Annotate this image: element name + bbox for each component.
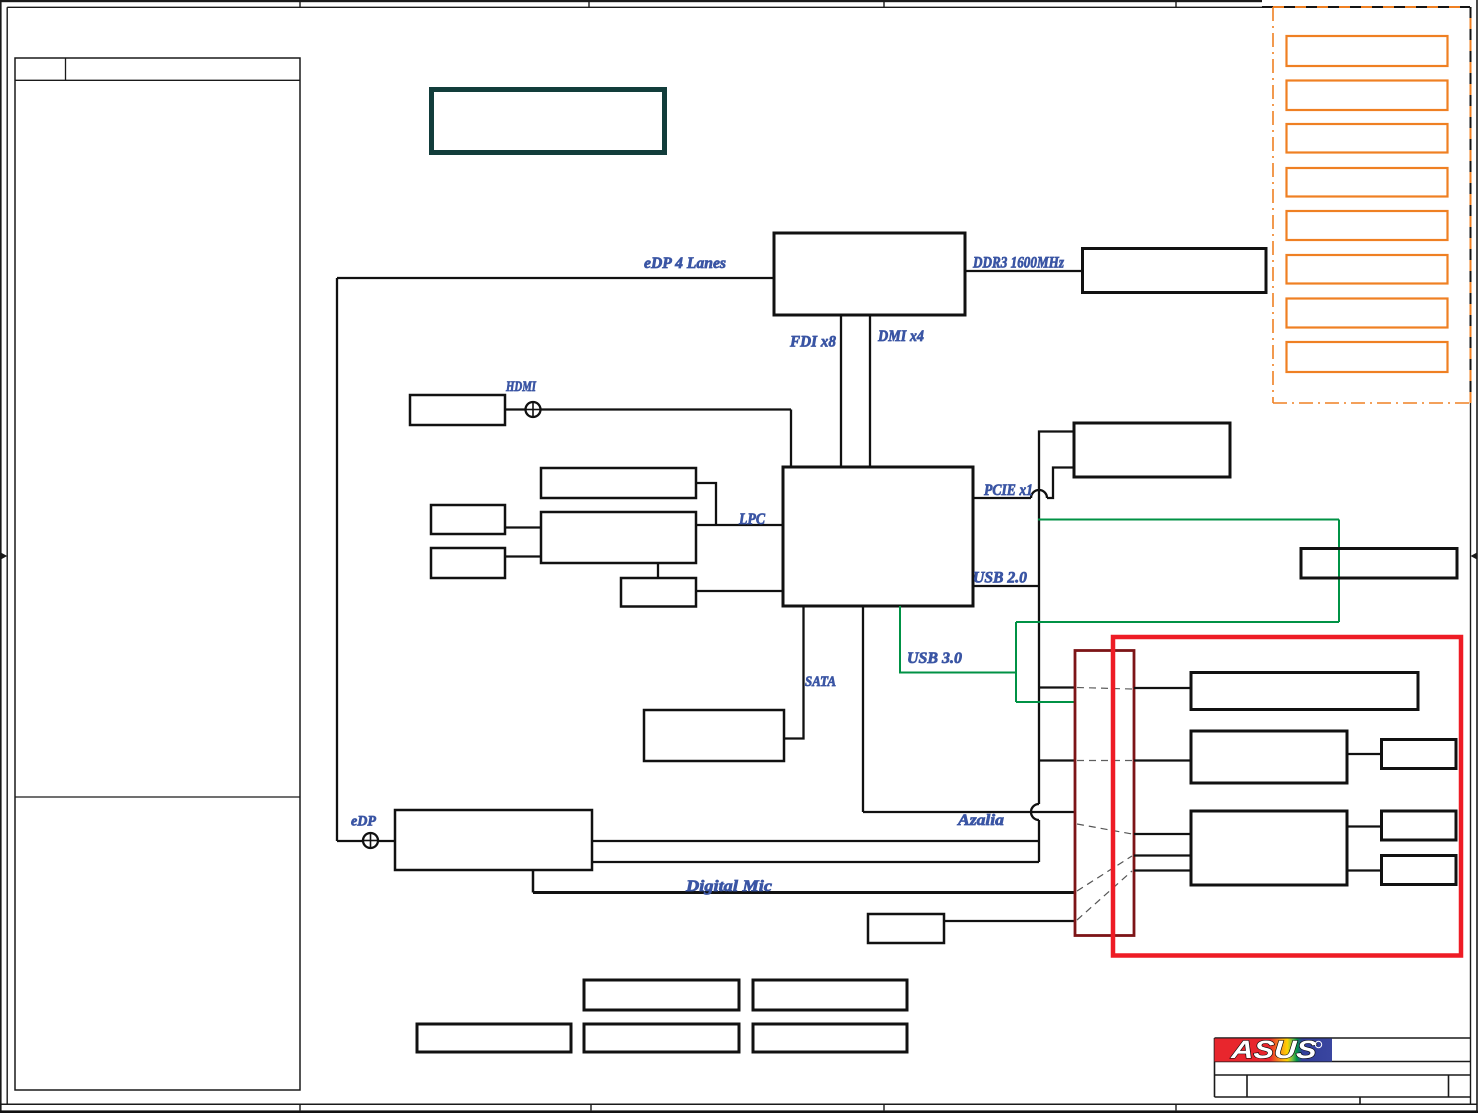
power rail box 5	[1287, 211, 1448, 240]
frame right center arrow	[1474, 555, 1477, 557]
revision table mid divider	[15, 796, 300, 798]
HDMI connector block	[410, 395, 505, 425]
svg-text:HDMI: HDMI	[505, 379, 537, 395]
svg-text:PCIE x1: PCIE x1	[983, 482, 1033, 499]
HDD block	[644, 710, 784, 761]
keyboard block	[431, 505, 505, 534]
wire mic to connector	[944, 920, 1075, 922]
svg-text:Azalia: Azalia	[957, 812, 1004, 829]
USB3 green riser	[1015, 622, 1017, 702]
wire USB 2.0	[973, 585, 1039, 587]
svg-text:LPC: LPC	[738, 511, 765, 528]
wire DDR3	[965, 270, 1083, 272]
internal mic block	[868, 914, 944, 943]
TPM block	[621, 578, 696, 607]
frame right inner border dashed part (orange)	[1470, 7, 1472, 403]
frame top inner line	[7, 6, 1266, 8]
codec line 1	[592, 840, 1039, 842]
wire LPC	[696, 524, 783, 526]
wire TPM to PCH	[696, 590, 783, 592]
frame bottom tick x1176	[1175, 1104, 1177, 1110]
wire keyboard to EC	[505, 526, 541, 528]
wire DMI x4	[869, 315, 871, 467]
mini-PCIe WLAN block	[1074, 423, 1230, 477]
wire connector to audio board 3	[1134, 869, 1191, 871]
spare block B	[753, 980, 907, 1010]
wire HDMI horizontal	[505, 408, 791, 410]
frame right edge line	[1476, 0, 1478, 1112]
title banner (teal)	[432, 90, 665, 153]
title block divider 2	[1448, 1075, 1450, 1097]
frame left center arrow	[0, 555, 3, 557]
board-edge connector (maroon)	[1075, 651, 1134, 936]
frame bottom tick x884	[883, 1104, 885, 1110]
frame top tick x884	[883, 0, 885, 7]
USB3 green top horizontal	[1038, 519, 1339, 521]
wire connector to audio board 2	[1134, 854, 1191, 856]
wire FDI x8	[840, 315, 842, 467]
bus vertical top segment	[1039, 432, 1074, 805]
ASUS logo registered mark	[1315, 1041, 1321, 1047]
frame right inner border dashed part (black)	[1470, 7, 1472, 403]
wire Azalia horizontal	[863, 811, 1075, 813]
wire Digital Mic horizontal	[533, 891, 1075, 894]
frame top-right mixed dash (orange)	[1262, 6, 1470, 8]
wire eDP 4 lanes vertical	[336, 278, 338, 841]
connector map dash 1	[1077, 688, 1132, 690]
EC block	[541, 512, 696, 563]
touchpad block	[431, 548, 505, 578]
camera block	[1191, 731, 1347, 783]
svg-text:ASUS: ASUS	[1229, 1036, 1318, 1064]
wire audio board to speaker 1	[1347, 825, 1382, 827]
spare block E	[753, 1024, 907, 1052]
svg-text:SATA: SATA	[805, 674, 836, 690]
wire bus to connector pin2	[1039, 759, 1075, 761]
frame bottom tick x300	[299, 1104, 301, 1110]
audio daughterboard block	[1191, 811, 1347, 885]
wire audio board to speaker 2	[1347, 869, 1382, 871]
codec line 2	[592, 861, 1039, 863]
card reader block	[1301, 549, 1457, 579]
panel assembly outline (red)	[1113, 637, 1461, 956]
wire Azalia vertical	[862, 606, 864, 812]
frame left edge line	[0, 0, 2, 1112]
svg-text:DMI x4: DMI x4	[877, 328, 924, 345]
svg-text:FDI x8: FDI x8	[789, 334, 836, 351]
svg-text:Digital Mic: Digital Mic	[685, 878, 772, 895]
eDP ESD node symbol	[363, 833, 378, 848]
wire HDMI vertical	[790, 410, 792, 468]
revision table header line	[15, 79, 300, 81]
wire hop PCIE over bus	[1031, 490, 1047, 498]
power rail box 8	[1287, 342, 1448, 372]
svg-text:DDR3 1600MHz: DDR3 1600MHz	[972, 255, 1064, 272]
connector map dash 2	[1077, 760, 1132, 762]
title block outline	[1214, 1038, 1216, 1097]
spare block A	[584, 980, 739, 1010]
bus hop over Azalia	[1031, 804, 1039, 820]
wire PCIE up into block	[1047, 468, 1074, 499]
speaker block 1	[1382, 811, 1457, 840]
svg-text:eDP: eDP	[351, 814, 377, 830]
svg-text:eDP 4 Lanes: eDP 4 Lanes	[644, 255, 726, 272]
USB3 green into connector	[1016, 701, 1075, 703]
USB3 green right vertical	[1338, 520, 1340, 623]
svg-text:USB 2.0: USB 2.0	[973, 570, 1027, 587]
wire connector to LVDS panel	[1134, 687, 1191, 689]
power rail box 1	[1287, 36, 1448, 66]
LVDS panel block	[1191, 673, 1418, 710]
power rail box 2	[1287, 81, 1448, 111]
wire Digital Mic vertical	[532, 870, 535, 893]
svg-text:USB 3.0: USB 3.0	[907, 650, 962, 667]
PCH block	[783, 467, 973, 606]
connector map dash 4	[1077, 856, 1132, 891]
power rail box 7	[1287, 299, 1448, 328]
revision table header divider	[65, 58, 67, 80]
CPU block	[774, 233, 965, 315]
wire PCIE x1 from PCH	[973, 497, 1031, 499]
wire eDP 4 lanes horizontal	[337, 277, 774, 279]
wire EC to TPM	[657, 563, 659, 578]
power rail box 6	[1287, 255, 1448, 284]
wire camera to sub block	[1347, 753, 1382, 755]
title block divider 1	[1246, 1075, 1248, 1097]
frame right inner border solid part	[1470, 403, 1472, 1104]
wire connector to audio board 1	[1134, 833, 1191, 835]
frame top-right mixed dash (black)	[1262, 6, 1470, 8]
bus vertical bottom segment	[1038, 820, 1040, 862]
frame top edge line	[0, 0, 1262, 2]
power rail box 3	[1287, 124, 1448, 153]
frame bottom edge band	[0, 1110, 1478, 1113]
BIOS flash block	[541, 468, 696, 498]
wire USB 3.0 from PCH	[900, 606, 1016, 673]
spare block D	[584, 1024, 739, 1052]
power rail box 4	[1287, 168, 1448, 197]
wire connector to camera	[1134, 759, 1191, 761]
audio codec block	[395, 810, 592, 870]
wire eDP into codec	[337, 840, 395, 842]
wire SATA vertical	[784, 606, 804, 739]
speaker block 2	[1382, 856, 1457, 885]
frame top tick x300	[299, 0, 301, 7]
frame bottom border line	[0, 1103, 1477, 1105]
revision table box	[15, 58, 300, 1090]
wire touchpad to EC	[505, 555, 541, 557]
DDR3 memory block	[1083, 249, 1267, 293]
wire bus to connector pin1	[1039, 686, 1075, 688]
wire BIOS to LPC	[696, 483, 716, 525]
frame left inner border	[6, 7, 8, 1104]
USB3 green mid horizontal	[1016, 621, 1339, 623]
camera sub block	[1382, 740, 1457, 769]
title block bottom divider	[1359, 1097, 1361, 1104]
connector map dash 5	[1077, 871, 1132, 920]
spare block C	[417, 1024, 571, 1052]
connector map dash 3	[1077, 824, 1132, 834]
frame top tick x1176	[1175, 0, 1177, 7]
frame top tick x589	[588, 0, 590, 7]
HDMI ESD node symbol	[526, 402, 541, 417]
frame bottom tick x591	[590, 1104, 592, 1110]
power rail dashed area (orange)	[1272, 7, 1274, 403]
power rail dashed bottom	[1273, 402, 1470, 404]
